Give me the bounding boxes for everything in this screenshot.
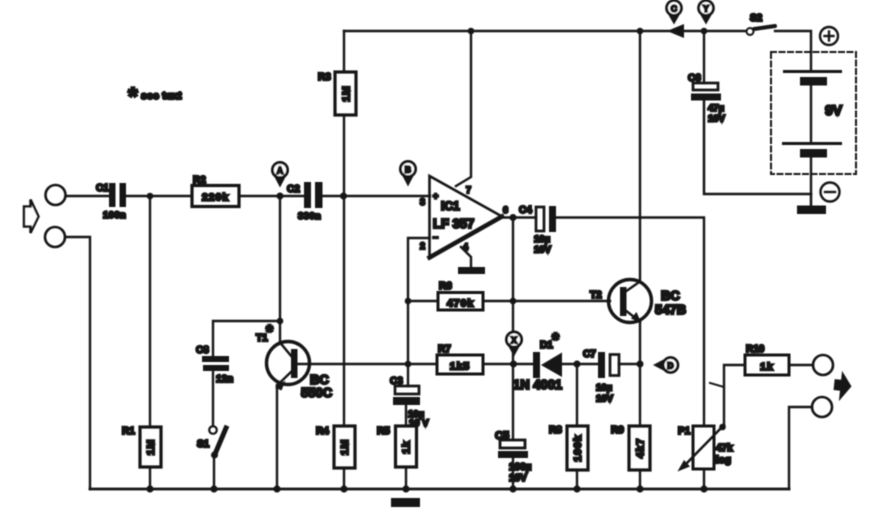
svg-text:R5: R5 [377, 426, 390, 437]
junction T2 collector-rail [637, 28, 644, 35]
svg-text:2: 2 [420, 241, 425, 251]
switch S2 [747, 28, 754, 35]
junction R8-rail [573, 485, 580, 492]
svg-text:6: 6 [503, 205, 508, 215]
node junction R1 tap [147, 193, 154, 200]
potentiometer P1 [693, 426, 714, 469]
wire R3 top to rail [343, 31, 345, 72]
svg-text:10V: 10V [596, 394, 614, 405]
svg-text:4k7: 4k7 [635, 438, 647, 459]
resistor R2 [192, 186, 239, 207]
test point C [669, 15, 680, 25]
wire R7 to clip node [483, 363, 534, 365]
svg-text:C4: C4 [519, 205, 532, 216]
svg-text:10µ: 10µ [596, 383, 612, 394]
wire wiper to R10 [724, 365, 745, 426]
output jack bottom [812, 397, 832, 417]
wire opamp output [502, 216, 536, 218]
svg-text:3: 3 [420, 197, 425, 207]
svg-text:R9: R9 [611, 425, 624, 436]
junction D1-R8 [574, 361, 581, 368]
svg-text:–: – [433, 232, 438, 242]
junction C8 tap [277, 318, 284, 325]
svg-text:T2: T2 [590, 290, 602, 301]
wire C7 to emitter node [619, 363, 640, 365]
wire R9 to rail [639, 470, 641, 489]
svg-text:C1: C1 [96, 183, 109, 194]
ground symbol main [402, 485, 409, 492]
svg-text:*: * [552, 330, 559, 350]
svg-text:47µ: 47µ [708, 103, 724, 114]
svg-text:log: log [716, 455, 731, 466]
svg-text:R7: R7 [438, 344, 451, 355]
resistor R5 [396, 426, 417, 467]
battery plus terminal [820, 27, 838, 45]
wire C8 to S1 [212, 371, 214, 426]
wire R10 to output jack [789, 364, 813, 366]
svg-text:S2: S2 [750, 13, 763, 24]
capacitor C7 [598, 352, 605, 378]
junction Y-rail [701, 28, 708, 35]
wire C2 to opamp pin3 [323, 195, 430, 197]
wire R6 to T2 base [483, 300, 610, 302]
svg-text:R3: R3 [318, 72, 331, 83]
wire C3 to R5 [405, 405, 407, 426]
svg-text:330n: 330n [298, 211, 321, 222]
svg-text:547B: 547B [655, 302, 686, 317]
test point Y [701, 15, 712, 25]
svg-text:1M: 1M [339, 439, 351, 456]
svg-text:C: C [671, 3, 677, 13]
svg-text:10V: 10V [708, 114, 726, 125]
capacitor C3 [395, 386, 419, 394]
svg-text:10V: 10V [534, 245, 552, 256]
ground bar pin4 [458, 267, 485, 274]
junction node D [637, 361, 644, 368]
transistor T2 BC547B [609, 280, 652, 323]
capacitor C1 [109, 183, 126, 207]
svg-text:C2: C2 [287, 184, 300, 195]
svg-text:9V: 9V [825, 102, 843, 118]
wire C5 to rail [512, 458, 514, 489]
svg-text:10µ: 10µ [534, 234, 550, 245]
battery minus terminal [821, 183, 840, 202]
junction R1-rail [146, 485, 153, 492]
capacitor C8 [202, 356, 229, 371]
junction R4-rail [340, 485, 347, 492]
svg-text:X: X [511, 335, 517, 345]
ground rail [90, 488, 789, 491]
svg-text:C6: C6 [688, 73, 701, 84]
svg-text:see text: see text [141, 90, 182, 102]
svg-text:D: D [667, 360, 673, 370]
junction C5-rail [509, 485, 516, 492]
svg-text:1k: 1k [760, 361, 774, 373]
capacitor C4 [536, 207, 544, 231]
wire D1 to C7 [562, 363, 599, 365]
wire T2 collector to rail [639, 31, 641, 282]
input jack bottom [45, 227, 65, 247]
svg-text:R6: R6 [439, 281, 452, 292]
wire T1 base to feedback node [298, 363, 437, 365]
junction R9-rail [636, 485, 643, 492]
svg-text:*: * [128, 83, 138, 111]
junction P1-rail [700, 485, 707, 492]
svg-text:550C: 550C [301, 385, 333, 400]
junction T1 base node [405, 361, 412, 368]
wire R2 to C2 [239, 195, 305, 197]
wire pin4 to ground [461, 247, 471, 267]
junction pin2-R6 [405, 298, 412, 305]
node A junction [277, 193, 284, 200]
wiper junction [719, 424, 726, 431]
junction pin7-rail [468, 28, 475, 35]
svg-text:R2: R2 [193, 175, 206, 186]
svg-text:Y: Y [703, 3, 709, 13]
wire R5 to rail [405, 467, 407, 489]
svg-text:IC1: IC1 [441, 199, 460, 213]
wire bottom jack to ground rail [65, 237, 90, 489]
svg-text:47k: 47k [716, 443, 733, 454]
svg-text:1k: 1k [401, 440, 413, 454]
wire C4 to P1 top [556, 218, 704, 427]
wire R1 top [149, 196, 151, 427]
wire to C8 [213, 321, 280, 357]
svg-text:B: B [405, 164, 411, 174]
wire R4 to rail [343, 468, 345, 489]
svg-text:470k: 470k [447, 298, 474, 310]
wire C3 tap [407, 364, 409, 386]
capacitor C5 [500, 440, 525, 448]
resistor R10 [745, 355, 789, 375]
resistor R6 [438, 293, 483, 311]
wire bottom jack to rail [789, 407, 812, 489]
output jack top [813, 355, 833, 375]
svg-text:LF 357: LF 357 [433, 216, 474, 231]
svg-text:1N 4001: 1N 4001 [513, 377, 562, 392]
test point X [509, 347, 520, 357]
wire T2 emitter down [639, 322, 641, 364]
wire bias node down to R4 [343, 196, 345, 426]
svg-text:S1: S1 [197, 439, 210, 450]
svg-text:R8: R8 [549, 425, 562, 436]
wire top jack to C1 [66, 195, 110, 197]
svg-text:R1: R1 [122, 426, 135, 437]
output arrow [832, 370, 853, 402]
resistor R1 [140, 427, 161, 467]
diode D1 1N4001 [533, 352, 540, 378]
node junction bias [340, 193, 347, 200]
svg-text:C7: C7 [583, 349, 596, 360]
test point B [403, 176, 414, 187]
svg-text:12n: 12n [216, 374, 233, 385]
test point A [275, 177, 286, 188]
junction S1-rail [210, 485, 217, 492]
svg-text:10V: 10V [509, 473, 527, 484]
svg-text:220k: 220k [202, 192, 229, 204]
wire clip node to C5 [512, 364, 514, 440]
wire pin7 to rail [456, 31, 471, 186]
wire output down to clip node [512, 218, 514, 365]
top supply rail [344, 30, 746, 32]
resistor R3 [335, 72, 356, 115]
junction T1 emitter-rail [273, 485, 280, 492]
svg-text:BC: BC [661, 288, 680, 303]
svg-text:P1: P1 [678, 426, 691, 437]
wire P1 bottom to rail [703, 469, 705, 489]
wire R6 left [408, 300, 438, 302]
svg-text:C5: C5 [495, 430, 509, 442]
svg-text:1M: 1M [145, 439, 157, 456]
input jack top [46, 185, 66, 205]
junction pin6 output [510, 214, 517, 221]
svg-text:100n: 100n [103, 210, 126, 221]
input arrow [24, 200, 39, 234]
wire D1 node to R8 [576, 364, 578, 426]
svg-text:1M: 1M [341, 85, 353, 102]
svg-text:C3: C3 [390, 376, 403, 387]
transistor T1 BC550C [267, 342, 310, 385]
resistor R7 [437, 355, 483, 374]
junction X clip node [510, 361, 517, 368]
resistor R4 [334, 426, 355, 468]
wire S2 to battery [775, 31, 811, 69]
svg-text:7: 7 [466, 185, 471, 195]
wire pin2 feedback [408, 238, 430, 364]
opamp IC1 LF357 [430, 176, 503, 258]
svg-text:1k5: 1k5 [450, 361, 471, 373]
wire C6 to battery minus [704, 100, 811, 206]
wire T1 emitter to rail [276, 385, 278, 489]
svg-text:*: * [266, 322, 273, 342]
wire node A down to T1 collector [279, 196, 281, 343]
svg-text:R10: R10 [746, 344, 765, 355]
svg-text:R4: R4 [316, 426, 329, 437]
wire R3 bottom to bias node [343, 115, 345, 196]
svg-text:+: + [433, 191, 438, 201]
capacitor C6 [703, 31, 705, 83]
svg-text:A: A [277, 165, 283, 175]
wire R8 to rail [576, 470, 578, 489]
current arrow [667, 24, 684, 38]
resistor R8 [567, 426, 588, 470]
junction R6-output [510, 298, 517, 305]
svg-text:C8: C8 [196, 345, 209, 356]
resistor R9 [629, 426, 650, 470]
wire R1 to rail [149, 467, 151, 489]
wire C1 to R2 [126, 195, 192, 197]
wire emitter node to R9 [639, 364, 641, 426]
switch S1 [209, 426, 217, 434]
wire S1 to rail [213, 455, 215, 489]
battery 9V [771, 52, 856, 174]
ground battery [797, 206, 826, 215]
wiper tick [710, 383, 724, 387]
capacitor C2 [304, 182, 323, 208]
test point D [653, 360, 664, 371]
svg-text:100k: 100k [572, 434, 584, 461]
